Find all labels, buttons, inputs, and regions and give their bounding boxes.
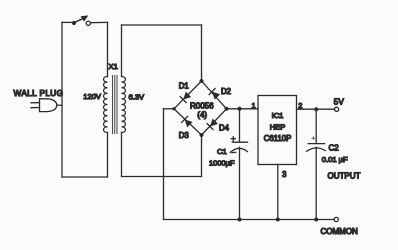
node C1 top junction [238,107,242,111]
svg-text:0.01 µF: 0.01 µF [322,155,348,164]
wire secondary top rail [122,24,202,26]
wire bridge right to IC pin 1 [227,108,259,110]
svg-text:HEP: HEP [270,122,286,131]
node pin 3 junction [276,218,280,222]
svg-text:D2: D2 [221,87,231,96]
wire bottom-left rail [62,176,108,178]
wire common bottom rail [164,219,335,221]
svg-text:120V: 120V [83,92,102,101]
svg-text:IC1: IC1 [272,111,284,120]
wire down to bridge top [201,25,203,81]
wire up to bridge bottom [201,135,203,177]
wire secondary upper [121,25,123,77]
svg-text:D4: D4 [219,123,230,132]
wall plug body [40,99,57,112]
svg-text:WALL PLUG: WALL PLUG [14,89,64,98]
op-amp IC1 box [258,96,297,165]
node C1 bottom junction [238,218,242,222]
wire plug to vertical [57,104,62,106]
svg-text:C1: C1 [217,147,227,156]
switch S1 arrowhead [81,15,89,21]
switch S1 arm [75,18,85,23]
wire secondary bottom rail [122,176,202,178]
capacitor C1 [230,109,247,220]
wire primary lower [107,133,109,178]
svg-text:1000µF: 1000µF [209,158,235,167]
diode D1 [180,92,191,103]
svg-text:D3: D3 [179,131,189,140]
wire left vertical [61,22,63,177]
bridge diamond [174,81,227,135]
svg-text:6.3V: 6.3V [129,92,146,101]
svg-text:3: 3 [282,170,287,179]
svg-text:X1: X1 [109,62,118,71]
svg-text:C2: C2 [329,144,340,153]
node bridge right [225,107,229,111]
svg-text:C6110P: C6110P [264,134,292,143]
svg-text:5V: 5V [334,97,345,106]
wire IC pin 2 to 5V [297,108,335,110]
svg-text:1: 1 [252,101,256,110]
svg-text:R0056: R0056 [190,101,214,110]
wire secondary lower [121,133,123,177]
wall plug prong 2 [31,107,40,109]
node bridge top [200,79,204,83]
terminal COMMON [334,217,338,221]
terminal 5V [335,107,339,111]
diode D3 [182,116,193,127]
pin 3 wire [277,165,279,220]
svg-text:D1: D1 [179,82,189,91]
wall plug prong 1 [31,102,40,104]
node bridge bottom [200,133,204,137]
node bridge left [172,107,175,110]
switch S1 pivot dot [72,21,76,25]
svg-text:COMMON: COMMON [321,227,359,236]
svg-text:2: 2 [298,101,302,110]
switch S1 open contact [86,21,90,25]
svg-text:(4): (4) [197,111,207,120]
wire top-left rail [62,21,72,23]
wire primary upper [107,22,109,76]
diode D4 [207,119,218,130]
node C2 top junction [314,107,318,111]
wire switch to primary top [91,21,108,23]
node C2 bottom junction [314,218,318,222]
transformer X1 primary winding [104,77,108,133]
diode D2 [209,89,220,100]
capacitor C2 [307,109,326,219]
transformer X1 core [113,76,117,134]
svg-text:OUTPUT: OUTPUT [328,172,361,181]
transformer X1 secondary winding [122,77,126,133]
wire bridge left to common [164,108,175,110]
